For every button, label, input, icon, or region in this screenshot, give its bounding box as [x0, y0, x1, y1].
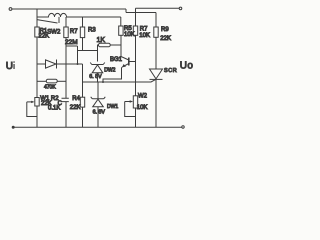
svg-text:W2: W2 — [138, 93, 148, 99]
switch SW2 blade — [37, 20, 58, 23]
svg-text:470K: 470K — [44, 85, 56, 91]
zener DW2 triangle — [92, 65, 103, 73]
svg-text:R9: R9 — [161, 27, 169, 33]
transistor BG1 collector arm — [121, 57, 129, 61]
svg-text:10K: 10K — [137, 105, 148, 111]
resistor R5 — [119, 26, 123, 35]
svg-text:6. 8V: 6. 8V — [89, 74, 102, 80]
svg-text:DW2: DW2 — [104, 68, 115, 74]
wire R3 bottom — [82, 38, 84, 51]
terminal bottom right — [182, 126, 184, 128]
wire 1K right lead — [110, 44, 121, 46]
junction gate node — [102, 81, 104, 83]
diode D triangle — [46, 60, 57, 68]
junction diode row — [77, 63, 79, 65]
zener DW2 bar — [90, 63, 105, 65]
potentiometer W1 box — [35, 98, 39, 107]
wire V7 top rail segment — [135, 8, 137, 26]
wire R5 riser from coil row — [120, 17, 122, 26]
wire R9 bottom to SCR anode — [155, 37, 157, 69]
transistor BG1 emitter arm with arrow — [122, 64, 129, 68]
wire collector riser — [120, 35, 122, 56]
wire 1K left lead — [98, 45, 99, 51]
resistor 470K — [46, 79, 57, 83]
wire 470K right lead — [57, 80, 66, 82]
zener DW1 triangle — [93, 99, 104, 107]
svg-text:R7: R7 — [70, 29, 78, 35]
wire R9 top — [155, 13, 157, 28]
wire rail B — [126, 12, 156, 14]
wire DW1 bottom — [97, 107, 99, 128]
svg-text:22K: 22K — [160, 36, 171, 42]
wire W1 bottom — [36, 106, 38, 127]
terminal bottom left — [12, 126, 15, 129]
svg-text:22K: 22K — [41, 101, 52, 107]
terminal input + — [9, 8, 12, 11]
svg-text:R7: R7 — [140, 27, 148, 33]
resistor R9 — [154, 27, 158, 37]
wire 470K row left — [37, 80, 46, 82]
wire C bottom — [65, 102, 67, 128]
wire C branch upper — [65, 46, 67, 98]
svg-text:R2: R2 — [51, 96, 59, 102]
svg-text:BG1: BG1 — [110, 57, 123, 63]
bottom rail — [14, 126, 182, 128]
potentiometer W2 box — [133, 96, 137, 108]
diode row wire right — [57, 63, 83, 65]
svg-text:22M: 22M — [65, 39, 78, 46]
svg-text:U: U — [6, 61, 14, 72]
terminal output top — [179, 7, 182, 10]
resistor R7 — [64, 27, 68, 38]
svg-text:22K: 22K — [39, 34, 50, 40]
SCR thyristor triangle — [150, 69, 163, 79]
W1 wiper arrow — [27, 101, 33, 103]
diode D row wire left — [37, 63, 46, 65]
wire DW2 bottom — [97, 73, 99, 82]
wire base to V7 — [129, 61, 136, 63]
wire step down — [125, 9, 127, 13]
svg-text:22K: 22K — [70, 105, 81, 111]
wire riser to R7 — [65, 17, 67, 27]
wire R7 bottom to node row — [66, 38, 78, 46]
inductor L coil bumps — [49, 13, 67, 17]
wire gate row — [83, 80, 156, 82]
wire left branch V1 middle — [36, 37, 38, 98]
SCR cathode bar — [150, 78, 163, 80]
wire top rail A — [12, 8, 126, 10]
capacitor C plates — [62, 98, 69, 101]
wire coil row — [37, 16, 121, 18]
wire riser to R3 — [82, 17, 84, 27]
wire R4 bottom — [82, 107, 84, 127]
wire tap down to diode row — [77, 46, 79, 64]
wire emitter down and bridge left — [103, 67, 122, 82]
transistor BG1 base bar — [128, 58, 130, 66]
svg-text:R3: R3 — [88, 28, 96, 34]
diode D cathode bar — [56, 60, 58, 69]
wire V7 middle — [135, 35, 137, 95]
wire rail C to output terminal — [136, 7, 180, 9]
svg-text:SCR: SCR — [164, 68, 177, 74]
svg-text:6. 8V: 6. 8V — [93, 110, 106, 116]
svg-text:SW2: SW2 — [47, 30, 61, 36]
W2 wiper arrow — [125, 101, 132, 103]
resistor R3 — [80, 27, 84, 38]
svg-text:R4: R4 — [72, 96, 80, 102]
wire node row y47.5 — [78, 50, 98, 52]
wire SCR cathode down — [155, 79, 157, 127]
W2 wiper loop — [125, 102, 136, 117]
resistor R4 — [80, 97, 84, 107]
wire DW1 top — [97, 82, 99, 99]
wire left branch V1 top — [36, 9, 38, 27]
resistor 1K horizontal — [99, 43, 111, 47]
svg-text:DW1: DW1 — [107, 104, 118, 110]
wire W2 bottom — [135, 108, 137, 127]
zener DW1 bar — [91, 97, 106, 99]
wire DW2 top lead — [97, 51, 99, 62]
resistor R1 — [35, 27, 39, 37]
svg-text:Uo: Uo — [180, 61, 194, 72]
switch SW2 contact — [58, 17, 60, 23]
svg-text:10K: 10K — [139, 33, 150, 39]
wire riser R4 from diode row — [82, 64, 84, 97]
W1 wiper loop — [27, 102, 37, 117]
resistor R7 right — [133, 26, 137, 35]
